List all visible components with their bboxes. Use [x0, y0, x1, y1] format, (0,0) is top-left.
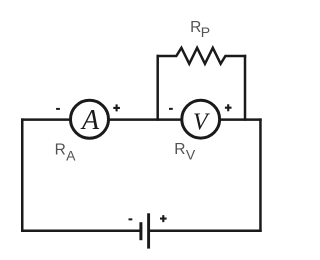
battery BT1 negative plate (short): [139, 222, 142, 240]
wire: parallel branch left vertical riser: [156, 55, 159, 121]
wire: right branch of outer loop: [259, 118, 262, 231]
svg-text:R: R: [190, 19, 201, 36]
wire: top-left main wire to ammeter: [21, 118, 71, 121]
svg-text:P: P: [201, 24, 210, 40]
polarity minus sign left of ammeter: [56, 108, 60, 110]
wire: main wire from voltmeter to top-right corner: [219, 118, 262, 121]
polarity plus sign right of voltmeter: [225, 104, 232, 111]
polarity plus sign right of battery: [160, 215, 167, 222]
wire: parallel branch right vertical riser: [244, 55, 247, 121]
resistor RP zigzag with leads: [157, 48, 247, 64]
svg-text:A: A: [66, 147, 76, 163]
polarity minus sign left of battery: [129, 218, 133, 220]
svg-text:V: V: [193, 110, 210, 136]
svg-text:R: R: [174, 141, 185, 158]
polarity plus sign right of ammeter: [113, 104, 120, 111]
battery BT1 positive plate (long): [147, 213, 150, 248]
svg-text:R: R: [55, 141, 66, 158]
ammeter A1 circle: [71, 100, 109, 138]
wire: bottom right segment from battery positive plate: [149, 229, 262, 232]
wire: bottom left segment to battery negative plate: [21, 229, 141, 232]
svg-text:V: V: [186, 147, 196, 163]
svg-text:A: A: [80, 105, 100, 136]
wire: main wire from ammeter to voltmeter through branch junction: [108, 118, 184, 121]
polarity minus sign left of voltmeter: [169, 108, 173, 110]
voltmeter V1 circle: [182, 100, 220, 138]
wire: left branch of outer loop: [21, 118, 24, 231]
